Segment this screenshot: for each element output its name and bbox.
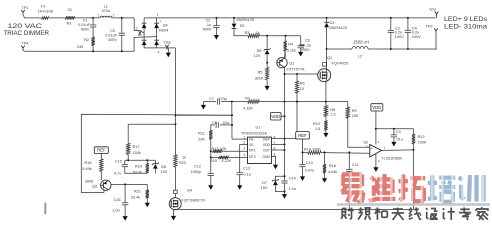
node R4 (285, 35, 287, 37)
svg-text:+: + (371, 146, 373, 150)
wire sense line (203, 101, 347, 103)
svg-text:0.1u: 0.1u (244, 173, 251, 177)
wire gate node (284, 73, 319, 75)
svg-text:VDD: VDD (263, 143, 271, 147)
svg-text:TP3: TP3 (426, 25, 433, 29)
svg-text:R17: R17 (133, 145, 140, 149)
svg-text:12V: 12V (254, 54, 261, 58)
svg-text:5.11k: 5.11k (287, 48, 296, 52)
svg-text:1.0u: 1.0u (289, 187, 296, 191)
svg-text:L1: L1 (104, 5, 108, 9)
label 120 VAC (8, 24, 43, 30)
net label REF2 (94, 147, 108, 154)
svg-text:0.01uF: 0.01uF (105, 33, 118, 37)
wire Q1 collector to A column (283, 67, 285, 74)
wire bottom rail (174, 209, 414, 211)
svg-text:1000p: 1000p (191, 170, 202, 174)
ground arrow C16 (123, 206, 128, 221)
node C11 (348, 151, 350, 153)
resistor R16 (323, 152, 338, 174)
svg-text:TP2: TP2 (429, 8, 436, 12)
svg-text:R4: R4 (288, 42, 293, 46)
wire R17 bottom (127, 154, 129, 160)
wire line sense to FB (175, 114, 232, 116)
inductor L1 (97, 5, 114, 18)
svg-text:LED+ 9 LEDs: LED+ 9 LEDs (444, 16, 487, 23)
svg-text:15V: 15V (261, 186, 268, 190)
resistor R18 (82, 153, 103, 171)
ground arrow VDD rail (282, 193, 287, 198)
ground arrow Q4 (171, 210, 176, 221)
svg-text:MT2: MT2 (249, 155, 256, 159)
svg-text:SS: SS (249, 143, 254, 147)
wire AC top rail (27, 17, 134, 19)
svg-text:TL331KDBV: TL331KDBV (381, 156, 403, 160)
wire VDD2 down (375, 111, 377, 145)
wire op-amp output (382, 149, 415, 151)
node C5 junction (121, 17, 123, 52)
ground arrow C12 (208, 176, 213, 190)
svg-text:1: 1 (157, 13, 159, 17)
svg-text:100V: 100V (412, 35, 421, 39)
capacitor C11 (346, 152, 359, 209)
svg-text:15V: 15V (161, 170, 168, 174)
svg-text:L2: L2 (358, 55, 362, 59)
ground arrow C10 (300, 167, 305, 181)
wire AC bottom rail (27, 50, 134, 52)
wire R12 bottom to rail (413, 150, 415, 210)
svg-text:1.0u: 1.0u (112, 208, 119, 212)
svg-text:R1: R1 (67, 21, 72, 25)
inductor L2 (327, 40, 369, 59)
capacitor C15 (114, 159, 147, 175)
ground arrow C2 (214, 31, 219, 39)
label LED- (444, 23, 488, 30)
svg-text:R5: R5 (258, 70, 263, 74)
capacitor C8 (211, 121, 232, 130)
svg-text:D4: D4 (163, 24, 168, 28)
transistor Q3 (85, 179, 111, 190)
svg-text:470u: 470u (102, 9, 110, 13)
wire Q3 emitter (100, 171, 102, 180)
svg-text:R3: R3 (245, 31, 250, 35)
node R16 (324, 151, 326, 153)
svg-text:4.12K: 4.12K (243, 107, 253, 111)
svg-text:F1: F1 (41, 5, 45, 9)
svg-text:C6: C6 (305, 39, 310, 43)
svg-text:HD04: HD04 (159, 29, 169, 33)
wire Q2 source (325, 78, 328, 102)
svg-text:TRIAC DIMMER: TRIAC DIMMER (4, 31, 50, 37)
ground arrow R16 (322, 173, 327, 183)
ground arrow op-amp (373, 163, 378, 172)
svg-text:R11: R11 (198, 132, 205, 136)
artifact mark (44, 203, 46, 215)
resistor R15 (210, 156, 248, 163)
transistor Q2 (318, 56, 348, 82)
wire left loop (81, 114, 232, 192)
capacitor C6 (298, 36, 312, 57)
svg-text:C12: C12 (194, 164, 201, 168)
ground arrow R21 (145, 198, 150, 207)
watermark slogan text (341, 207, 488, 220)
svg-text:R9: R9 (352, 109, 357, 113)
resistor R21 (131, 190, 149, 200)
wire R11 column (210, 139, 212, 173)
resistor R19 (133, 160, 149, 174)
svg-text:C5: C5 (110, 29, 115, 33)
svg-text:C10: C10 (306, 161, 313, 165)
svg-text:5.49k: 5.49k (82, 167, 91, 171)
svg-text:R19: R19 (135, 164, 142, 168)
svg-text:U1: U1 (256, 126, 261, 130)
svg-text:.01u: .01u (396, 138, 403, 142)
test point TP5 (164, 41, 171, 49)
svg-text:VDD: VDD (271, 114, 280, 119)
wire Q3 collector (111, 183, 148, 189)
transistor Q1 (277, 58, 305, 72)
svg-text:10K: 10K (352, 114, 359, 118)
node C1 junction (92, 17, 94, 52)
resistor R13 (212, 147, 248, 153)
wire OUT pin (271, 149, 285, 151)
wire comp top (376, 128, 414, 130)
capacitor C14 (281, 176, 296, 193)
node Q1 base (266, 62, 268, 64)
resistor R5 (255, 63, 269, 81)
label TRIAC DIMMER (4, 31, 50, 37)
pin 2 label (136, 26, 142, 35)
svg-text:TP5: TP5 (164, 41, 171, 45)
svg-text:MURA120: MURA120 (237, 18, 255, 22)
svg-text:R10: R10 (313, 122, 320, 126)
wire VDD pin (271, 143, 285, 145)
svg-text:0.47u: 0.47u (305, 168, 315, 172)
wire R9 to op-amp (348, 118, 370, 147)
svg-text:1: 1 (97, 14, 99, 18)
op-amp U2 (364, 140, 403, 163)
svg-text:FB: FB (249, 138, 254, 142)
ground arrow R10 (323, 131, 328, 138)
resistor R6 (295, 74, 304, 93)
svg-text:2: 2 (136, 26, 138, 30)
svg-text:C9: C9 (396, 130, 401, 134)
resistor R1 (65, 8, 74, 26)
fuse F1 (38, 5, 54, 20)
svg-text:REF: REF (298, 133, 307, 138)
svg-text:R8: R8 (330, 108, 335, 112)
capacitor C13 (237, 166, 251, 176)
svg-text:150k: 150k (133, 151, 141, 155)
resistor R12 (412, 129, 427, 150)
wire R17 top (128, 124, 175, 143)
capacitor C3 (388, 18, 405, 49)
svg-text:54.9k: 54.9k (133, 170, 142, 174)
svg-text:C14: C14 (289, 177, 296, 181)
capacitor C9 (391, 129, 403, 147)
svg-text:4: 4 (158, 50, 160, 54)
svg-text:4.64k: 4.64k (328, 170, 337, 174)
resistor R9 (346, 102, 359, 119)
svg-text:3906: 3906 (85, 179, 93, 183)
zener diode D8 (152, 160, 168, 174)
svg-text:OUT: OUT (263, 149, 270, 153)
svg-text:D8: D8 (161, 165, 166, 169)
svg-text:FQT1N60CTF: FQT1N60CTF (182, 198, 207, 202)
svg-text:C13: C13 (243, 166, 250, 170)
wire DC top rail (144, 17, 436, 19)
node C2 (215, 17, 217, 19)
wire R20 to Q4 (174, 167, 178, 198)
test point TP4 (21, 42, 28, 52)
svg-text:1.5: 1.5 (330, 113, 335, 117)
wire VDD box stub (281, 115, 286, 117)
ground arrow TP5 (166, 48, 171, 57)
svg-text:D2: D2 (240, 24, 245, 28)
svg-text:1A FUSE: 1A FUSE (38, 10, 54, 14)
wire AC jog lower (134, 37, 157, 52)
wire op-amp vminus (375, 154, 377, 163)
svg-text:VDD: VDD (372, 105, 381, 110)
test point TP3 (426, 25, 438, 49)
wire bleeder column (174, 48, 176, 155)
node C4 (407, 17, 409, 50)
wire bridge negative (157, 47, 176, 49)
wire SS pin (240, 145, 248, 173)
svg-text:D7: D7 (262, 181, 267, 185)
svg-text:TP4: TP4 (22, 42, 29, 46)
svg-text:4.22K: 4.22K (222, 159, 232, 163)
net label VDD2 (371, 104, 383, 111)
resistor R3 (245, 31, 260, 38)
svg-text:Q4: Q4 (187, 189, 192, 193)
svg-text:R20: R20 (179, 161, 186, 165)
svg-text:R15: R15 (210, 159, 217, 163)
transistor Q4 (169, 189, 206, 210)
capacitor C12 (191, 164, 214, 175)
svg-text:R12: R12 (418, 135, 425, 139)
svg-text:R16: R16 (329, 164, 336, 168)
svg-text:MURA120: MURA120 (330, 26, 348, 30)
svg-text:C2: C2 (206, 18, 211, 22)
wire Q2 drain (325, 49, 327, 73)
wire AC jog upper (134, 18, 144, 33)
resistor R7 (243, 96, 259, 110)
svg-text:1.5: 1.5 (315, 127, 320, 131)
svg-text:FQT4N25: FQT4N25 (332, 62, 349, 66)
node C3 (390, 17, 392, 50)
svg-text:D3: D3 (330, 21, 335, 25)
svg-text:GND: GND (262, 155, 270, 159)
svg-text:R18: R18 (85, 161, 92, 165)
svg-text:C15: C15 (115, 159, 122, 163)
svg-text:0.01uF: 0.01uF (78, 23, 91, 27)
svg-text:R6: R6 (300, 82, 305, 86)
svg-text:250V: 250V (301, 48, 310, 52)
resistor R2 (77, 37, 95, 52)
svg-text:Q1: Q1 (289, 62, 294, 66)
svg-text:301K: 301K (255, 76, 264, 80)
node switch (326, 48, 328, 50)
resistor R10 (313, 117, 328, 132)
svg-text:400V: 400V (81, 27, 90, 31)
pin 3 label (138, 33, 140, 37)
capacitor C5 (105, 18, 125, 51)
resistor R4 (284, 36, 296, 58)
svg-text:3: 3 (243, 147, 245, 151)
svg-text:R21: R21 (134, 190, 141, 194)
svg-text:4.7u: 4.7u (114, 172, 121, 176)
wire FB column (231, 102, 233, 140)
wire R6 to REF box (296, 93, 298, 132)
svg-text:R14 100K: R14 100K (304, 148, 321, 152)
node A crossing (284, 101, 299, 103)
ground arrow C7 (201, 102, 206, 110)
capacitor C7 (209, 97, 227, 105)
svg-text:1500 uH: 1500 uH (353, 40, 369, 45)
capacitor C1 (78, 18, 96, 37)
svg-text:C1: C1 (83, 18, 88, 22)
svg-text:8: 8 (274, 136, 276, 140)
IC U1 (241, 126, 276, 164)
watermark logo text (337, 173, 490, 206)
svg-text:.01u: .01u (222, 121, 229, 125)
svg-text:C7: C7 (209, 97, 214, 101)
wire REF pin (271, 138, 296, 140)
svg-text:Q2: Q2 (327, 56, 332, 60)
net label REF (296, 132, 310, 139)
svg-text:U2: U2 (364, 140, 369, 144)
svg-text:R2: R2 (84, 38, 89, 42)
svg-text:1u: 1u (207, 23, 211, 27)
svg-text:10: 10 (300, 87, 304, 91)
node D5 (266, 35, 268, 37)
label LED+ (444, 16, 487, 23)
wire FB pin (232, 138, 248, 140)
net label VDD (271, 113, 282, 121)
svg-text:TP1: TP1 (22, 6, 29, 10)
svg-text:4: 4 (243, 153, 245, 157)
wire mid node (125, 159, 156, 161)
ground arrow R5 (265, 80, 270, 91)
resistor R11 (198, 130, 212, 141)
svg-text:29.4k: 29.4k (131, 196, 140, 200)
wire R3 to C6 (260, 35, 301, 37)
wire REF box to R14 (302, 139, 304, 152)
node D3 (326, 17, 328, 19)
resistor R20 (174, 155, 186, 167)
wire GND pin (271, 156, 275, 161)
node FB tap (231, 101, 233, 103)
wire L2 to LED- (368, 48, 437, 50)
svg-text:120 VAC: 120 VAC (8, 24, 43, 30)
svg-text:MT1: MT1 (249, 149, 256, 153)
capacitor C2 (203, 18, 220, 32)
svg-text:100K: 100K (418, 141, 427, 145)
diode D3 (324, 18, 347, 49)
bridge rectifier D4 (142, 13, 169, 54)
resistor R14 (303, 148, 370, 155)
svg-text:FZT757TA: FZT757TA (287, 67, 305, 71)
svg-text:REF: REF (97, 148, 106, 153)
svg-text:3: 3 (138, 33, 140, 37)
capacitor C16 (112, 184, 128, 212)
svg-text:33: 33 (67, 8, 71, 12)
svg-text:LED- 310ma: LED- 310ma (444, 23, 488, 30)
zener diode D5 (254, 36, 271, 63)
node Q2 source (325, 101, 327, 103)
diode D2 (232, 18, 254, 36)
resistor R17 (127, 143, 141, 155)
wire Q3 base (103, 190, 105, 193)
resistor R8 (324, 102, 335, 117)
svg-text:400V: 400V (203, 28, 212, 32)
svg-text:D5: D5 (257, 49, 262, 53)
svg-text:REF: REF (263, 138, 270, 142)
svg-text:C11: C11 (352, 163, 359, 167)
svg-text:2: 2 (113, 14, 115, 18)
capacitor C4 (405, 18, 422, 49)
svg-text:C16: C16 (114, 198, 121, 202)
test point TP1 (21, 6, 28, 18)
capacitor C10 (299, 151, 314, 172)
svg-text:100V: 100V (395, 35, 404, 39)
svg-text:249: 249 (77, 45, 83, 49)
test point TP2 (429, 8, 438, 18)
svg-text:20K: 20K (198, 138, 205, 142)
wire A column (284, 74, 286, 176)
wire Q4 source (174, 209, 176, 211)
ground arrow U1 (273, 161, 278, 169)
svg-text:400V: 400V (108, 38, 117, 42)
svg-text:Q3: Q3 (92, 185, 97, 189)
wire Q1 emitter (283, 51, 286, 58)
node D2 (233, 17, 235, 19)
zener diode D7 (261, 175, 286, 192)
ground arrow C13 (237, 175, 242, 190)
svg-text:1k: 1k (182, 155, 186, 159)
